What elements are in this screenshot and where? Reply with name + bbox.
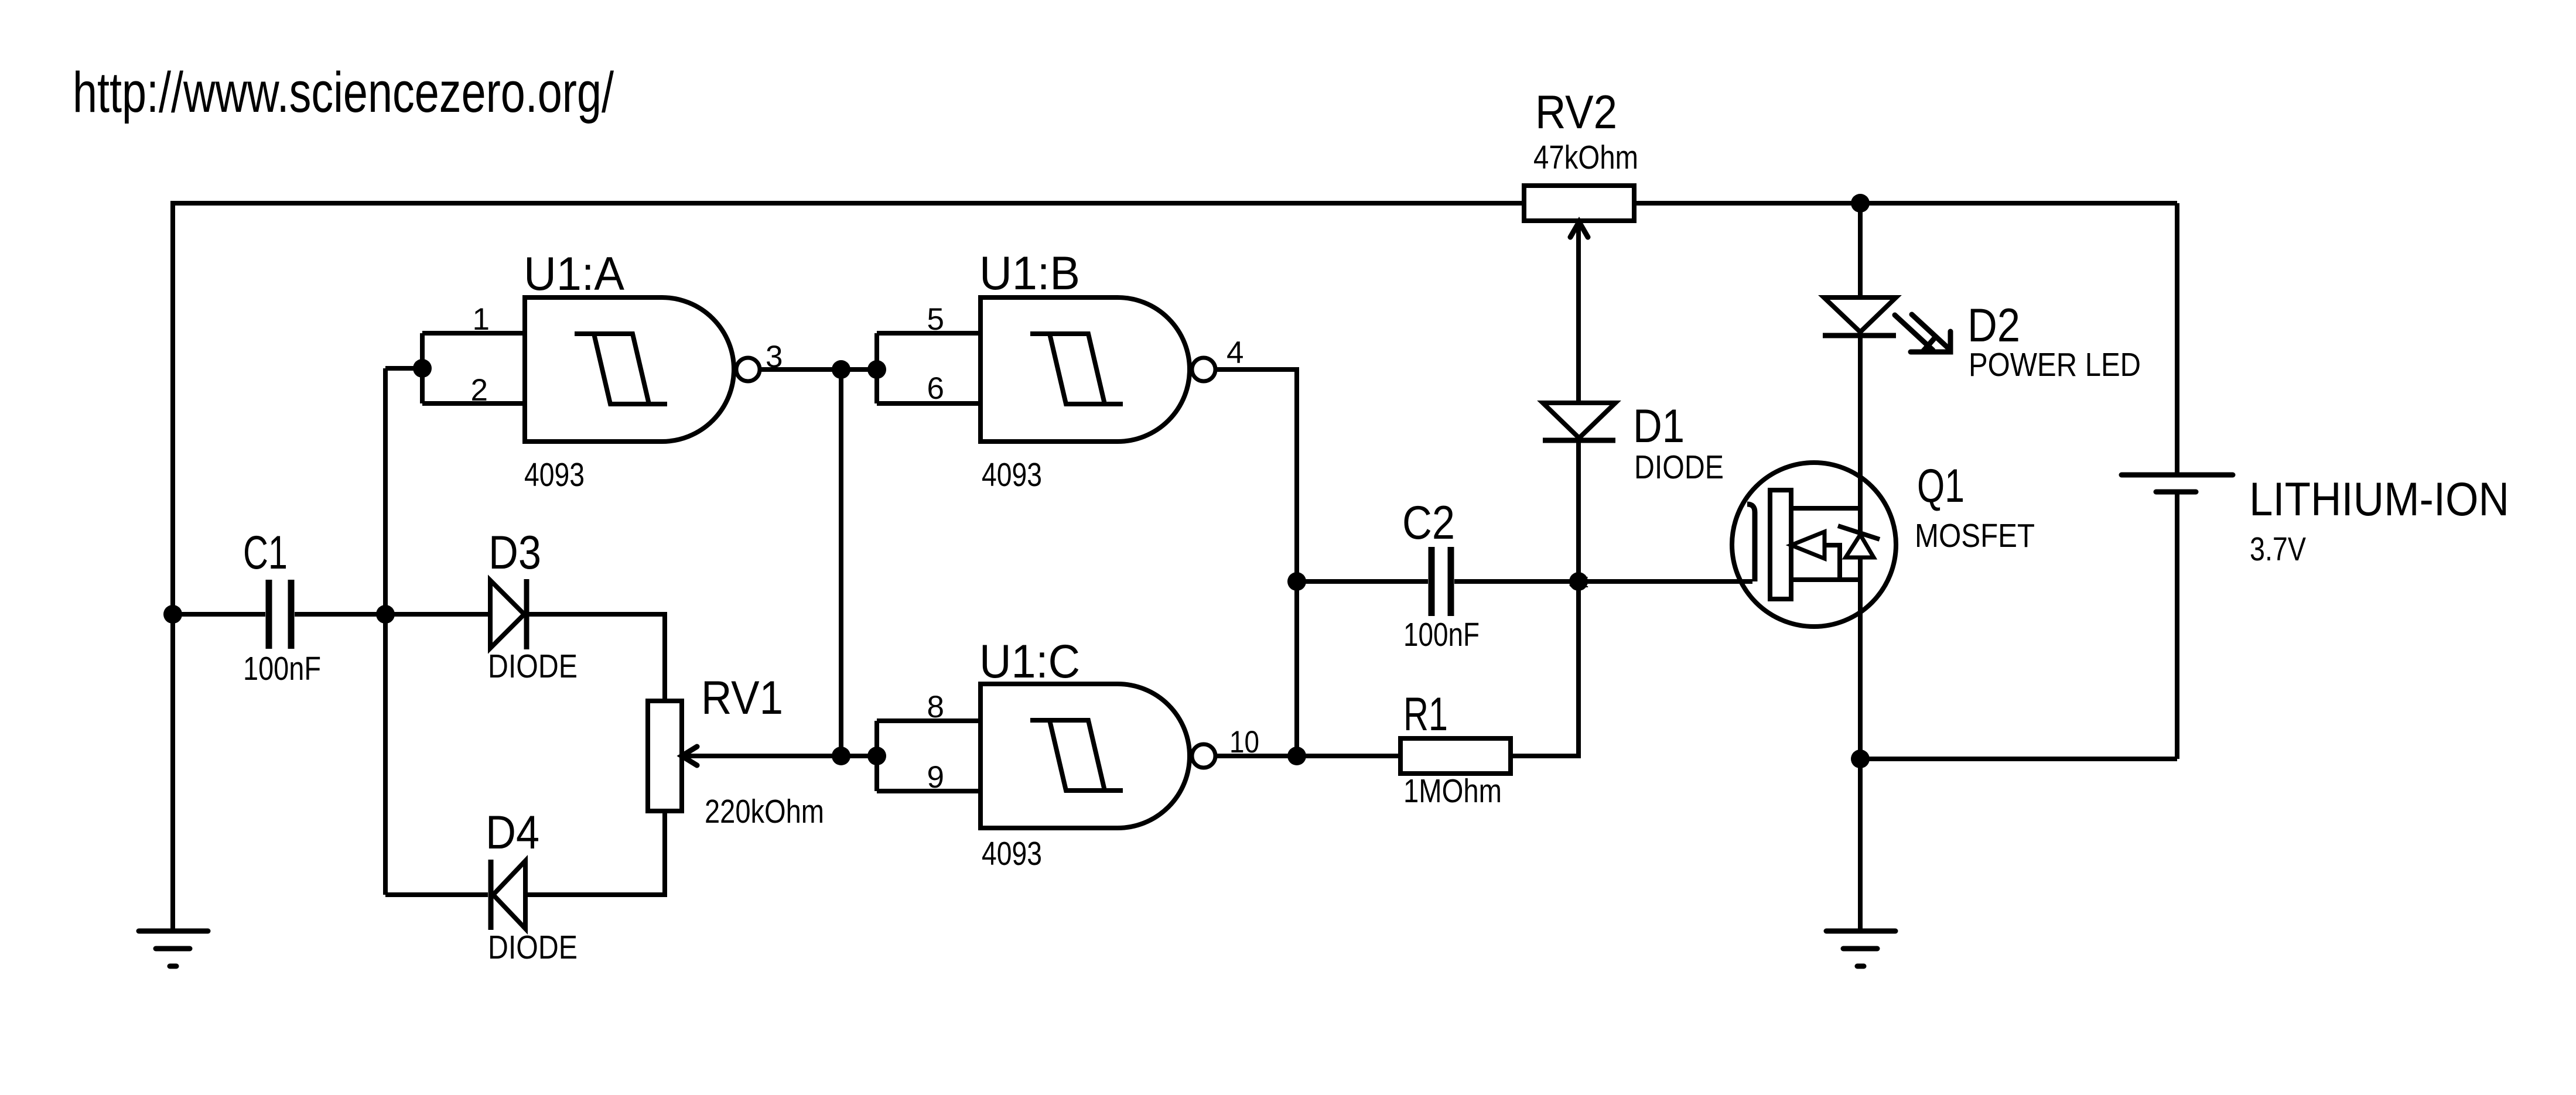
wire C1 to D3 node [295, 612, 385, 617]
wire C1 row [173, 612, 265, 617]
wire U1:C pin9 stub [877, 789, 980, 793]
potentiometer RV2 body [1524, 186, 1634, 221]
svg-text:220kOhm: 220kOhm [705, 793, 824, 830]
svg-text:LITHIUM-ION: LITHIUM-ION [2249, 473, 2509, 526]
svg-text:100nF: 100nF [243, 650, 321, 687]
wire left vertical to ground [170, 614, 175, 929]
wire D3 cathode to RV1 top [527, 614, 665, 701]
potentiometer RV1 body [648, 701, 682, 811]
svg-text:D3: D3 [488, 526, 541, 579]
svg-text:MOSFET: MOSFET [1915, 517, 2035, 555]
svg-text:100nF: 100nF [1403, 616, 1480, 653]
wire U1:A pin1 stub [422, 331, 525, 336]
svg-text:U1:A: U1:A [524, 248, 624, 300]
wire D3 anode [385, 612, 490, 617]
wire U1:C pin8 stub [877, 718, 980, 723]
wire U1:A pin2 stub [422, 401, 525, 406]
wire battery bottom lead [2175, 494, 2179, 759]
node wiper feedback [832, 747, 850, 765]
nand gate U1:A [525, 297, 734, 442]
node U1:B input [867, 360, 886, 379]
wire U1:A input bracket [420, 333, 425, 403]
svg-text:D2: D2 [1967, 299, 2020, 352]
wire U1:C output row to R1 [1215, 754, 1400, 758]
wire SZ node to mosfet gate [1579, 579, 1752, 584]
led D2 [1823, 297, 1896, 336]
node top rail D2 [1851, 194, 1870, 213]
node C1 left [163, 605, 182, 624]
svg-text:D1: D1 [1633, 400, 1685, 453]
wire U1:C input bracket [874, 721, 879, 791]
wire D2 drain vertical [1858, 203, 1863, 929]
svg-text:1: 1 [473, 302, 490, 337]
node C2 left [1287, 572, 1306, 591]
wire battery top lead [2175, 203, 2179, 473]
wire node x658 vertical [383, 368, 388, 895]
nand gate U1:C [980, 684, 1190, 828]
svg-text:Q1: Q1 [1917, 460, 1965, 512]
ground left [139, 931, 208, 966]
svg-text:1MOhm: 1MOhm [1403, 772, 1502, 810]
node pin10/R1 [1287, 747, 1306, 765]
wire feedback vertical x1436 [839, 369, 843, 756]
svg-text:DIODE: DIODE [488, 648, 578, 685]
diode D1 [1543, 403, 1615, 440]
svg-text:DIODE: DIODE [1634, 449, 1724, 486]
diode D3 [490, 579, 527, 649]
svg-text:U1:B: U1:B [979, 247, 1080, 300]
svg-text:U1:C: U1:C [979, 635, 1080, 688]
svg-text:C1: C1 [243, 526, 288, 579]
svg-text:3: 3 [766, 340, 783, 374]
schmitt symbol U1:A [575, 334, 667, 404]
node pin3 feedback [832, 360, 850, 379]
wire RV2 wiper and D1 vertical [1576, 221, 1581, 581]
wire RV1 bottom to D4 row [494, 811, 665, 895]
battery BT1 plates [2121, 475, 2233, 492]
svg-text:4093: 4093 [982, 456, 1042, 494]
mosfet Q1 [1732, 463, 1896, 627]
wire top rail right segment [1634, 201, 2177, 206]
svg-text:R1: R1 [1403, 688, 1448, 741]
node C1/D3 [376, 605, 395, 624]
svg-text:http://www.sciencezero.org/: http://www.sciencezero.org/ [73, 60, 614, 124]
led D2 emission arrows [1895, 314, 1950, 352]
svg-text:4093: 4093 [982, 835, 1042, 872]
capacitor C2 [1432, 547, 1451, 616]
output bubble U1:A pin3 [736, 358, 760, 381]
svg-text:SZ: SZ [1569, 573, 1588, 591]
svg-text:C2: C2 [1402, 497, 1455, 549]
svg-text:47kOhm: 47kOhm [1533, 139, 1638, 176]
svg-text:6: 6 [927, 371, 944, 406]
node U1:C input [867, 747, 886, 765]
svg-text:D4: D4 [486, 806, 539, 859]
wire U1:B pin5 stub [877, 331, 980, 336]
svg-text:3.7V: 3.7V [2250, 531, 2306, 568]
svg-text:RV1: RV1 [701, 672, 783, 724]
svg-text:DIODE: DIODE [488, 929, 578, 966]
output bubble U1:B pin4 [1192, 358, 1215, 381]
svg-text:9: 9 [927, 760, 944, 795]
svg-text:2: 2 [471, 373, 488, 408]
potentiometer RV2 wiper arrow [1570, 222, 1588, 237]
wire C2 row left [1297, 579, 1428, 584]
wire bottom right row [1860, 757, 2177, 761]
svg-text:POWER LED: POWER LED [1969, 346, 2141, 384]
output bubble U1:C pin10 [1192, 744, 1215, 768]
ground right [1826, 931, 1895, 966]
potentiometer RV1 wiper arrow [682, 747, 697, 765]
svg-text:4093: 4093 [524, 456, 585, 494]
capacitor C1 [269, 580, 291, 649]
node U1:A input [413, 359, 432, 378]
wire RV1 wiper row [680, 754, 877, 758]
nand gate U1:B [980, 297, 1190, 442]
svg-text:8: 8 [927, 690, 944, 724]
resistor R1 [1400, 738, 1511, 774]
wire U1:B output pin4 down [1215, 369, 1297, 756]
svg-text:4: 4 [1226, 336, 1243, 370]
wire U1:B input bracket [874, 333, 879, 403]
svg-text:RV2: RV2 [1535, 86, 1617, 139]
wire U1:A output to U1:B bracket [760, 367, 877, 372]
wire top rail left segment [173, 203, 1524, 614]
wire C2 row right to SZ node [1454, 579, 1579, 584]
wire U1:B pin6 stub [877, 401, 980, 406]
diode D4 [491, 860, 525, 930]
wire D4 to x658 vertical [385, 892, 488, 897]
node source/battery [1851, 750, 1870, 768]
schmitt symbol U1:C [1030, 720, 1123, 791]
schmitt symbol U1:B [1030, 334, 1123, 404]
svg-text:5: 5 [927, 302, 944, 337]
svg-text:10: 10 [1229, 725, 1259, 759]
wire R1 right to D1 branch [1511, 581, 1579, 756]
wire to U1:A input bracket [385, 366, 422, 371]
node SZ gate [1569, 572, 1588, 591]
